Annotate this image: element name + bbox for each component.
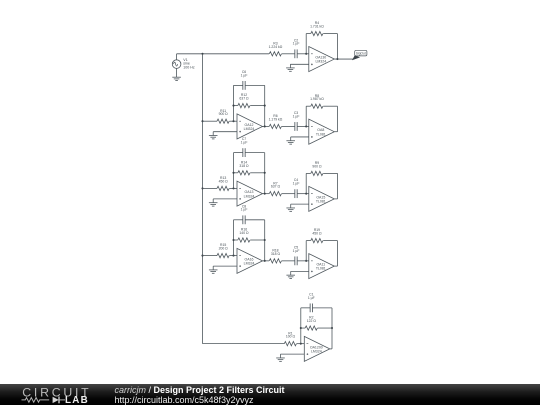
wire row3 + input to ground jog <box>213 198 237 200</box>
wire C4 to right op-amp <box>297 193 309 195</box>
svg-text:LM324: LM324 <box>311 350 322 354</box>
wire main input bus vertical <box>202 54 204 344</box>
resistor R7 (637 Ω) <box>269 192 281 196</box>
wire R18 to C5 <box>282 260 295 262</box>
ground at row1 op-amp + input <box>286 67 295 69</box>
resistor R2 (122 Ω) feedback <box>301 327 305 329</box>
wire OA16 output <box>263 260 270 262</box>
ground at OA8 + input <box>286 140 295 142</box>
wire row3 feedback right vertical <box>264 153 266 194</box>
ground at OA15 + input <box>286 207 295 209</box>
node row1 output junction <box>336 58 338 60</box>
node bottom inverting junction <box>300 343 302 345</box>
wire R1 to inverting input <box>297 343 305 345</box>
wire row2 + input to ground jog <box>213 131 237 133</box>
node row2 output junction <box>264 125 266 127</box>
svg-text:1 µF: 1 µF <box>308 296 315 300</box>
capacitor C4 (1 µF) <box>294 189 296 198</box>
node row1 inverting input junction <box>305 53 307 55</box>
op-amp OA13 LM324 <box>237 181 263 206</box>
svg-text:1 µF: 1 µF <box>293 249 300 253</box>
svg-text:100 Ω: 100 Ω <box>286 335 296 339</box>
wire row3 left feedback left vertical <box>233 153 235 189</box>
wire row2 left feedback left vertical <box>233 85 235 121</box>
wire row4 feedback top segment left <box>234 219 243 221</box>
resistor R18 (318 Ω) <box>269 259 281 263</box>
svg-text:1 µF: 1 µF <box>241 141 248 145</box>
wire row3 feedback top segment right <box>245 152 265 154</box>
op-amp OA1200 LM324 <box>304 336 330 361</box>
op-amp OA12 LM324 <box>237 114 263 139</box>
wire bottom feedback right vertical <box>331 308 333 349</box>
capacitor C6 (1 µF) feedback <box>242 81 244 90</box>
svg-text:1.731 kΩ: 1.731 kΩ <box>310 25 324 29</box>
svg-text:318 Ω: 318 Ω <box>239 164 249 168</box>
svg-text:122 Ω: 122 Ω <box>307 319 317 323</box>
resistor R6 (1.179 kΩ) <box>269 124 281 128</box>
wire row3 feedback top segment left <box>234 152 243 154</box>
wire row2 right feedback right vertical <box>323 105 337 107</box>
capacitor C3 (1 µF) <box>294 122 296 131</box>
resistor R9 (900 Ω) feedback <box>311 171 323 175</box>
svg-text:1 µF: 1 µF <box>241 208 248 212</box>
resistor R11 (900 Ω) <box>217 119 229 123</box>
node row3 left feedback junction at inverting input <box>232 187 234 189</box>
svg-text:1 µF: 1 µF <box>293 42 300 46</box>
wire OA12 output <box>263 125 270 127</box>
wire R11 to inverting input <box>229 120 237 122</box>
wire row4 right feedback right vertical <box>323 240 337 242</box>
node row2 feedback resistor left junction <box>232 105 234 107</box>
op-amp OA15 TL081 <box>309 186 335 211</box>
node row4 feedback resistor right junction <box>264 239 266 241</box>
node row3 feedback resistor right junction <box>264 172 266 174</box>
footer url <box>115 395 254 405</box>
voltage source V1 (sine 100 Hz) <box>172 60 181 69</box>
wire row3 right feedback left vertical <box>305 173 307 193</box>
svg-text:1.224 kΩ: 1.224 kΩ <box>269 45 283 49</box>
wire row4 + input to ground jog <box>213 265 237 267</box>
capacitor C8 (1 µF) feedback <box>242 215 244 224</box>
svg-text:200 Ω: 200 Ω <box>219 247 229 251</box>
wire R6 to C3 <box>282 125 295 127</box>
ground at OA12 + input <box>209 135 218 137</box>
ground below V1 <box>172 76 181 78</box>
resistor R4 (1.731 kΩ) feedback <box>311 31 323 35</box>
wire R7 to C4 <box>282 193 295 195</box>
node bus tap row4 <box>201 255 203 257</box>
node row4 left feedback junction at inverting input <box>232 255 234 257</box>
wire top net from V1 to R3 <box>177 53 270 55</box>
svg-text:1 µF: 1 µF <box>293 114 300 118</box>
svg-text:TL081: TL081 <box>316 200 326 204</box>
svg-text:140 Ω: 140 Ω <box>239 231 249 235</box>
node bottom feedback resistor right junction <box>331 327 333 329</box>
svg-text:100 Hz: 100 Hz <box>183 65 195 69</box>
node row2 feedback resistor right junction <box>264 105 266 107</box>
CircuitLab logo <box>0 384 110 405</box>
op-amp OA11 TL081 <box>309 254 335 279</box>
capacitor C5 (1 µF) <box>294 256 296 265</box>
wire R15 to inverting input <box>229 255 237 257</box>
svg-text:LM324: LM324 <box>244 194 255 198</box>
svg-text:LM324: LM324 <box>315 60 326 64</box>
wire row1 output <box>334 58 353 60</box>
svg-text:LAB: LAB <box>65 395 89 405</box>
wire V1 bottom lead <box>176 68 178 77</box>
node top bus junction <box>201 53 203 55</box>
node bottom feedback resistor left junction <box>300 327 302 329</box>
resistor R15 (200 Ω) <box>217 253 229 257</box>
node row4 feedback resistor left junction <box>232 239 234 241</box>
wire row2 right feedback left vertical <box>305 106 307 126</box>
op-amp OA130 LM324 <box>309 47 335 72</box>
node row3 right inverting input junction <box>305 193 307 195</box>
svg-text:450 Ω: 450 Ω <box>312 232 322 236</box>
node row3 feedback resistor left junction <box>232 172 234 174</box>
node row4 output junction <box>264 260 266 262</box>
wire row3 right feedback right vertical <box>323 172 337 174</box>
svg-text:900 Ω: 900 Ω <box>219 112 229 116</box>
wire bus to R13 <box>203 187 218 189</box>
wire row4 left feedback left vertical <box>233 220 235 256</box>
wire bottom + input to ground jog <box>281 353 305 355</box>
resistor R14 (318 Ω) feedback <box>234 172 238 174</box>
node bus tap row2 <box>201 120 203 122</box>
wire row2 feedback top segment left <box>234 84 243 86</box>
wire bottom-row horizontal feed <box>203 343 285 345</box>
wire OA13 output <box>263 193 270 195</box>
node row3 output junction <box>264 193 266 195</box>
svg-text:1 µF: 1 µF <box>241 73 248 77</box>
node row2 right inverting input junction <box>305 125 307 127</box>
resistor R8 (1.987 kΩ) feedback <box>311 104 323 108</box>
svg-text:TL081: TL081 <box>316 267 326 271</box>
wire bus to R11 <box>203 120 218 122</box>
svg-text:637 Ω: 637 Ω <box>271 185 281 189</box>
ground at OA13 + input <box>209 202 218 204</box>
node row4 right inverting input junction <box>305 260 307 262</box>
wire bottom feedback left vertical <box>300 308 302 344</box>
resistor R16 (140 Ω) feedback <box>234 239 238 241</box>
resistor R13 (450 Ω) <box>217 186 229 190</box>
capacitor C7 (1 µF) feedback <box>242 148 244 157</box>
ground at OA11 + input <box>286 274 295 276</box>
ground at OA1200 + input <box>276 357 285 359</box>
node bus tap row3 <box>201 187 203 189</box>
op-amp OA8 TL081 <box>309 119 335 144</box>
svg-text:1.179 kΩ: 1.179 kΩ <box>269 117 283 121</box>
wire bottom feedback top left segment <box>301 307 310 309</box>
wire row1 non-inverting input to ground <box>290 63 308 65</box>
wire row1 feedback left vertical <box>305 34 307 54</box>
svg-text:637 Ω: 637 Ω <box>239 97 249 101</box>
svg-text:LM324: LM324 <box>244 127 255 131</box>
svg-text:1 µF: 1 µF <box>293 182 300 186</box>
wire row3 right + input to ground jog <box>291 203 309 205</box>
resistor R3 (1.224 kΩ) <box>269 52 281 56</box>
wire C2 to U1 inverting input <box>297 53 309 55</box>
svg-text:SigOut: SigOut <box>356 51 366 55</box>
wire bottom feedback top right segment <box>312 307 332 309</box>
node row2 left feedback junction at inverting input <box>232 120 234 122</box>
wire row2 right + input to ground jog <box>291 136 309 138</box>
wire row2 feedback right vertical <box>264 85 266 126</box>
wire R13 to inverting input <box>229 187 237 189</box>
wire C3 to right op-amp <box>297 125 309 127</box>
wire bus to R15 <box>203 255 218 257</box>
wire row4 feedback right vertical <box>264 220 266 261</box>
resistor R19 (450 Ω) feedback <box>311 238 323 242</box>
wire row4 right + input to ground jog <box>291 270 309 272</box>
resistor R12 (637 Ω) feedback <box>234 105 238 107</box>
ground at OA16 + input <box>209 269 218 271</box>
wire row4 right feedback left vertical <box>305 241 307 261</box>
svg-text:450 Ω: 450 Ω <box>219 179 229 183</box>
resistor R1 (100 Ω) <box>284 342 296 346</box>
wire row1 feedback right vertical <box>323 33 337 35</box>
svg-text:LM324: LM324 <box>244 261 255 265</box>
svg-text:900 Ω: 900 Ω <box>312 164 322 168</box>
op-amp OA16 LM324 <box>237 248 263 273</box>
wire row2 feedback top segment right <box>245 84 265 86</box>
svg-text:TL081: TL081 <box>316 132 326 136</box>
svg-text:318 Ω: 318 Ω <box>271 252 281 256</box>
capacitor C1 (1 µF) feedback <box>309 303 311 312</box>
svg-text:1.987 kΩ: 1.987 kΩ <box>310 97 324 101</box>
footer title <box>115 385 285 395</box>
capacitor C2 (1 µF) <box>294 49 296 58</box>
wire V1 top lead <box>176 54 178 60</box>
wire C5 to right op-amp <box>297 260 309 262</box>
wire R3 to C2 <box>282 53 295 55</box>
output flag SigOut <box>353 56 360 60</box>
wire row4 feedback top segment right <box>245 219 265 221</box>
